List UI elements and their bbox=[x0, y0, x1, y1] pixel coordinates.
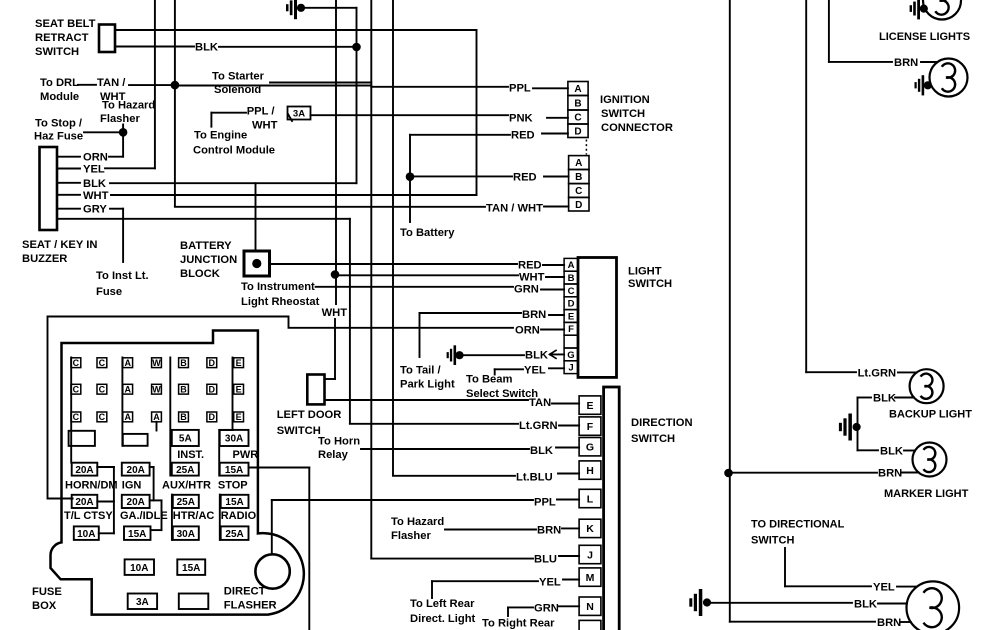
svg-text:WHT: WHT bbox=[519, 272, 545, 284]
svg-text:C: C bbox=[73, 358, 80, 368]
wire GRY buzzer bbox=[57, 208, 80, 210]
svg-text:C: C bbox=[99, 384, 106, 394]
wire BLK backup lamp to ground bbox=[858, 397, 872, 399]
wire TAN to direction switch E bbox=[325, 399, 529, 401]
wire WHT to light switch B bbox=[335, 274, 518, 276]
light switch pin A bbox=[564, 258, 578, 271]
fuse position letter E r389 c7 bbox=[234, 384, 244, 394]
fuse 25A AUX/HTR bbox=[172, 463, 199, 476]
fuse row3 A stub bbox=[156, 422, 158, 431]
wire BLK drop to battery junction block bbox=[255, 183, 257, 251]
svg-text:BLK: BLK bbox=[530, 445, 553, 457]
fuse position letter B r363 c5 bbox=[179, 358, 189, 368]
svg-text:HORN/DM: HORN/DM bbox=[65, 480, 118, 492]
svg-text:D: D bbox=[209, 384, 216, 394]
svg-text:L: L bbox=[587, 493, 594, 505]
direction switch pin L bbox=[579, 489, 601, 507]
ignition switch connector 2 pin A bbox=[569, 156, 589, 170]
wire ORN to light switch F (fuse box loop) bbox=[48, 317, 514, 499]
svg-text:Haz Fuse: Haz Fuse bbox=[34, 131, 83, 143]
svg-text:Solenoid: Solenoid bbox=[214, 84, 261, 96]
svg-text:F: F bbox=[568, 324, 574, 335]
svg-text:AUX/HTR: AUX/HTR bbox=[162, 480, 211, 492]
svg-text:WHT: WHT bbox=[83, 190, 109, 202]
wire TAN/WHT to ignition connector D bbox=[175, 206, 485, 208]
fuse box letter bus A column bbox=[121, 358, 123, 446]
wire engine control module bracket bbox=[210, 113, 212, 127]
svg-text:A: A bbox=[574, 84, 581, 95]
fuse position letter C r417 c1 bbox=[71, 412, 81, 422]
svg-text:3A: 3A bbox=[293, 108, 305, 119]
light switch pin C bbox=[564, 284, 578, 297]
ignition switch connector 2 pin D bbox=[569, 197, 589, 211]
svg-text:YEL: YEL bbox=[873, 582, 895, 594]
wire BRN to marker lamp bbox=[729, 472, 878, 474]
svg-text:CONNECTOR: CONNECTOR bbox=[601, 122, 673, 134]
svg-text:LICENSE LIGHTS: LICENSE LIGHTS bbox=[879, 31, 970, 43]
svg-text:ORN: ORN bbox=[515, 325, 540, 337]
svg-text:A: A bbox=[124, 358, 131, 368]
wire PPL to ignition connector A bbox=[533, 87, 568, 89]
wire 3A fuse to PNK bbox=[311, 114, 509, 116]
svg-text:LIGHT: LIGHT bbox=[628, 265, 662, 277]
fuse 10A bottom bbox=[125, 559, 154, 575]
direction switch pin K bbox=[579, 519, 601, 537]
fuse 15A RADIO bbox=[221, 495, 249, 508]
fuse position letter A r389 c3 bbox=[123, 384, 133, 394]
fuse box letter bus C column bbox=[70, 358, 72, 463]
svg-text:E: E bbox=[236, 384, 242, 394]
svg-text:10A: 10A bbox=[77, 529, 95, 540]
fuse 15A STOP bbox=[220, 463, 249, 476]
wire riser x336 upper bbox=[335, 0, 337, 304]
svg-text:WHT: WHT bbox=[252, 120, 278, 132]
ignition switch connector 1 pin A bbox=[568, 82, 588, 96]
wire WHT label to 3A fuse bbox=[288, 114, 292, 121]
wire Lt.GRN riser corner to direction switch F bbox=[350, 423, 518, 425]
svg-text:TAN /: TAN / bbox=[97, 77, 125, 89]
light switch pin E bbox=[564, 310, 578, 323]
fuse position letter D r389 c6 bbox=[207, 384, 217, 394]
svg-text:5A: 5A bbox=[179, 434, 192, 445]
svg-text:Fuse: Fuse bbox=[96, 286, 122, 298]
fuse blank bottom bbox=[179, 594, 209, 610]
svg-text:C: C bbox=[99, 358, 106, 368]
fuse 25A bbox=[221, 526, 249, 540]
svg-text:N: N bbox=[586, 601, 594, 613]
svg-text:20A: 20A bbox=[127, 465, 145, 476]
direction switch pin blank bbox=[579, 620, 601, 630]
svg-text:BLOCK: BLOCK bbox=[180, 268, 220, 280]
wire TAN/WHT to junction bbox=[129, 84, 175, 86]
fuse box outline bbox=[50, 331, 303, 615]
svg-text:BLK: BLK bbox=[83, 178, 106, 190]
rear directional lamp bbox=[907, 581, 960, 630]
svg-text:To Tail /: To Tail / bbox=[400, 365, 441, 377]
wire riser x370 top bbox=[370, 0, 372, 559]
battery junction block bbox=[244, 251, 270, 276]
wire riser x476 (WHT loop) bbox=[476, 30, 478, 195]
fuse blank 1 bbox=[69, 431, 95, 446]
direction switch pin J bbox=[579, 545, 601, 563]
fuse position letter C r417 c2 bbox=[97, 412, 107, 422]
svg-text:A: A bbox=[124, 412, 131, 422]
svg-text:SWITCH: SWITCH bbox=[277, 425, 321, 437]
svg-text:B: B bbox=[568, 273, 575, 284]
svg-text:J: J bbox=[587, 549, 593, 561]
svg-text:MARKER LIGHT: MARKER LIGHT bbox=[884, 488, 969, 500]
fuse 10A bbox=[74, 526, 99, 540]
ignition switch connector 1 pin D bbox=[568, 124, 588, 138]
wire IGN chain bbox=[150, 466, 154, 468]
fuse position letter B r417 c5 bbox=[179, 412, 189, 422]
svg-text:E: E bbox=[568, 311, 574, 322]
svg-text:3A: 3A bbox=[136, 597, 149, 608]
light switch pin J bbox=[564, 361, 578, 374]
wire BLU to direction switch J bbox=[371, 558, 533, 560]
svg-text:PWR: PWR bbox=[233, 449, 259, 461]
fuse 20A T/L CTSY bbox=[72, 495, 98, 508]
fuse position letter D r417 c6 bbox=[207, 412, 217, 422]
svg-text:B: B bbox=[180, 412, 187, 422]
junction RED node bbox=[406, 172, 415, 181]
svg-text:20A: 20A bbox=[75, 465, 93, 476]
left door switch bbox=[307, 375, 324, 405]
wire trunk riser x730 bbox=[729, 0, 731, 622]
fuse position letter B r389 c5 bbox=[179, 384, 189, 394]
svg-text:H: H bbox=[586, 465, 594, 477]
wire stub up to Flasher label bbox=[122, 125, 124, 133]
light switch pin D bbox=[564, 297, 578, 310]
svg-text:Direct. Light: Direct. Light bbox=[410, 613, 476, 625]
svg-text:To Left Rear: To Left Rear bbox=[410, 598, 475, 610]
wire BRN to direction switch K bbox=[445, 529, 536, 531]
junction BRN marker node bbox=[724, 469, 733, 478]
wire RADIO column bbox=[219, 495, 221, 540]
wire BRN to light switch E bbox=[419, 313, 421, 357]
wire Lt.GRN to backup lamp bbox=[806, 371, 856, 373]
svg-text:15A: 15A bbox=[182, 563, 200, 574]
direct flasher circle bbox=[255, 554, 289, 588]
svg-text:To Horn: To Horn bbox=[318, 436, 360, 448]
ignition switch connector 1 pin C bbox=[568, 110, 588, 124]
wire Haz Fuse to junction bbox=[84, 131, 123, 133]
wire BLK to marker lamp bbox=[858, 449, 879, 451]
wire TAN/WHT junction to PPL label bbox=[175, 85, 371, 87]
wire riser x336 lower to left door switch bbox=[334, 319, 336, 379]
svg-text:RED: RED bbox=[513, 172, 537, 184]
wire ORN buzzer bbox=[57, 156, 80, 158]
svg-text:IGN: IGN bbox=[122, 480, 142, 492]
wire BLK to rear lamp bbox=[707, 602, 852, 604]
fuse 20A HORN/DM bbox=[72, 463, 98, 476]
wire BLK to light switch G bbox=[460, 354, 524, 356]
direction switch pin E bbox=[579, 396, 601, 414]
svg-text:C: C bbox=[574, 113, 581, 124]
svg-text:BLK: BLK bbox=[195, 42, 218, 54]
svg-text:15A: 15A bbox=[128, 529, 146, 540]
svg-text:A: A bbox=[568, 260, 575, 271]
ground top center bbox=[286, 0, 305, 19]
light switch pin B bbox=[564, 271, 578, 284]
backup lamp bbox=[910, 369, 944, 403]
svg-text:BLK: BLK bbox=[880, 446, 903, 458]
svg-text:B: B bbox=[180, 358, 187, 368]
svg-text:FUSE: FUSE bbox=[32, 586, 62, 598]
svg-text:YEL: YEL bbox=[524, 364, 546, 376]
fuse position letter A r363 c3 bbox=[123, 358, 133, 368]
svg-text:PPL /: PPL / bbox=[247, 106, 275, 118]
svg-text:T/L CTSY: T/L CTSY bbox=[64, 510, 113, 522]
svg-text:BLK: BLK bbox=[525, 350, 548, 362]
direction switch pin F bbox=[579, 417, 601, 435]
fuse position letter C r389 c2 bbox=[97, 384, 107, 394]
svg-text:To Hazard: To Hazard bbox=[102, 100, 155, 112]
fuse 15A bottom bbox=[177, 559, 205, 575]
wire TAN/WHT riser x175 bbox=[174, 0, 176, 207]
svg-text:C: C bbox=[73, 412, 80, 422]
svg-text:To Engine: To Engine bbox=[194, 129, 247, 141]
svg-text:D: D bbox=[574, 126, 581, 137]
svg-text:SEAT BELT: SEAT BELT bbox=[35, 18, 96, 30]
direction switch pin H bbox=[579, 461, 601, 479]
svg-text:W: W bbox=[152, 384, 161, 394]
svg-text:SWITCH: SWITCH bbox=[35, 46, 79, 58]
svg-text:PPL: PPL bbox=[509, 83, 531, 95]
ignition switch connector 2 pin B bbox=[569, 170, 589, 184]
svg-text:LEFT DOOR: LEFT DOOR bbox=[277, 409, 342, 421]
svg-text:20A: 20A bbox=[127, 497, 145, 508]
svg-text:15A: 15A bbox=[225, 497, 243, 508]
svg-text:Lt.GRN: Lt.GRN bbox=[519, 420, 558, 432]
svg-text:BLK: BLK bbox=[854, 599, 877, 611]
marker lamp bbox=[913, 443, 947, 477]
fuse 3A bbox=[288, 107, 311, 120]
svg-text:25A: 25A bbox=[177, 497, 195, 508]
svg-text:A: A bbox=[124, 384, 131, 394]
svg-text:C: C bbox=[575, 186, 582, 197]
fuse box letter bus E column bbox=[232, 358, 234, 431]
wire battery junction block to RED light switch A bbox=[270, 263, 518, 265]
wire BLK seat belt switch bbox=[115, 46, 194, 48]
svg-text:PNK: PNK bbox=[509, 113, 533, 125]
ground backup/marker bbox=[839, 414, 861, 441]
svg-text:RED: RED bbox=[511, 130, 535, 142]
wire WHT buzzer bbox=[57, 194, 80, 196]
svg-text:20A: 20A bbox=[75, 497, 93, 508]
svg-text:GRN: GRN bbox=[514, 284, 539, 296]
svg-text:Relay: Relay bbox=[318, 449, 349, 461]
svg-text:RETRACT: RETRACT bbox=[35, 32, 89, 44]
svg-text:D: D bbox=[209, 358, 216, 368]
fuse position letter E r417 c7 bbox=[234, 412, 244, 422]
svg-text:E: E bbox=[236, 358, 242, 368]
svg-text:IGNITION: IGNITION bbox=[600, 94, 650, 106]
svg-text:RADIO: RADIO bbox=[221, 510, 257, 522]
ground on BLK light switch wire bbox=[447, 345, 464, 365]
fuse position letter C r363 c2 bbox=[97, 358, 107, 368]
wire flasher drop and PPL feed bbox=[271, 500, 273, 554]
ignition switch connector 1 pin B bbox=[568, 96, 588, 111]
wire GRN to direction switch N bbox=[507, 607, 509, 616]
fuse position letter E r363 c7 bbox=[234, 358, 244, 368]
svg-text:DIRECT: DIRECT bbox=[224, 585, 266, 597]
fuse 3A bottom bbox=[128, 594, 157, 610]
svg-text:To Instrument: To Instrument bbox=[241, 281, 315, 293]
svg-text:W: W bbox=[152, 358, 161, 368]
fuse 5A INST bbox=[172, 430, 199, 446]
svg-text:A: A bbox=[153, 412, 160, 422]
wire dash after To DRL bbox=[78, 84, 96, 86]
svg-text:BRN: BRN bbox=[894, 57, 918, 69]
svg-text:BUZZER: BUZZER bbox=[22, 253, 67, 265]
svg-text:B: B bbox=[575, 172, 582, 183]
fuse position letter W r363 c4 bbox=[152, 358, 162, 368]
junction BLK / ground riser bbox=[352, 43, 361, 52]
svg-text:B: B bbox=[574, 98, 581, 109]
svg-text:ORN: ORN bbox=[83, 152, 108, 164]
junction haz fuse node bbox=[119, 128, 128, 137]
svg-text:BLK: BLK bbox=[873, 393, 896, 405]
wire GRY drop to Inst Lt fuse bbox=[122, 209, 124, 262]
svg-text:GRN: GRN bbox=[534, 603, 559, 615]
wire riser x155 to YEL bbox=[154, 0, 156, 168]
light switch pin G bbox=[564, 348, 578, 361]
svg-text:K: K bbox=[586, 523, 594, 535]
direction switch pin M bbox=[579, 568, 601, 586]
wire HTR/AC column bbox=[171, 495, 173, 540]
svg-text:C: C bbox=[73, 384, 80, 394]
svg-text:Flasher: Flasher bbox=[391, 530, 431, 542]
fuse position letter C r363 c1 bbox=[71, 358, 81, 368]
wire junction down to ORN bbox=[122, 132, 124, 156]
svg-text:10A: 10A bbox=[130, 563, 148, 574]
svg-text:BATTERY: BATTERY bbox=[180, 240, 232, 252]
wire BRN to license lamp 2 bbox=[829, 61, 892, 63]
svg-text:E: E bbox=[236, 412, 242, 422]
wire GRN to light switch C bbox=[316, 286, 513, 288]
wire riser x350 bbox=[349, 219, 351, 424]
wire riser x393 bbox=[392, 0, 394, 476]
svg-text:YEL: YEL bbox=[539, 576, 561, 588]
wire BLK buzzer bbox=[57, 182, 80, 184]
svg-text:SWITCH: SWITCH bbox=[751, 534, 794, 546]
svg-text:Select Switch: Select Switch bbox=[466, 388, 538, 400]
svg-text:D: D bbox=[575, 200, 582, 211]
svg-text:C: C bbox=[99, 412, 106, 422]
junction TAN/WHT node bbox=[171, 81, 180, 90]
fuse 30A PWR bbox=[220, 430, 249, 446]
svg-text:To Hazard: To Hazard bbox=[391, 516, 444, 528]
svg-text:E: E bbox=[586, 400, 593, 412]
svg-text:To Battery: To Battery bbox=[400, 227, 455, 239]
fuse 15A bbox=[124, 526, 151, 540]
wire YEL to light switch J bbox=[494, 369, 496, 374]
svg-text:To Right Rear: To Right Rear bbox=[482, 618, 555, 630]
wire license riser x829 bbox=[828, 0, 830, 62]
svg-text:B: B bbox=[180, 384, 187, 394]
svg-text:To Beam: To Beam bbox=[466, 373, 512, 385]
svg-text:15A: 15A bbox=[225, 465, 243, 476]
svg-text:SWITCH: SWITCH bbox=[601, 108, 645, 120]
wire YEL buzzer bbox=[57, 168, 80, 170]
svg-text:BACKUP LIGHT: BACKUP LIGHT bbox=[889, 409, 972, 421]
svg-text:TAN / WHT: TAN / WHT bbox=[486, 203, 543, 215]
svg-text:30A: 30A bbox=[225, 434, 243, 445]
seat belt retract switch bbox=[99, 25, 115, 53]
wire stub To Battery bbox=[409, 177, 411, 222]
svg-text:Flasher: Flasher bbox=[100, 113, 140, 125]
svg-text:GA./IDLE: GA./IDLE bbox=[120, 510, 168, 522]
fuse box letter bus B column bbox=[169, 358, 171, 476]
battery junction block terminal dot bbox=[252, 259, 261, 268]
wire STOP 15A feed bbox=[249, 467, 310, 469]
wire BRN to rear lamp bbox=[730, 621, 875, 623]
svg-text:Lt.BLU: Lt.BLU bbox=[516, 471, 553, 483]
svg-text:PPL: PPL bbox=[534, 497, 556, 509]
direction switch body bbox=[604, 387, 620, 630]
ground rear lamp BLK bbox=[689, 589, 711, 616]
svg-text:30A: 30A bbox=[177, 529, 195, 540]
wire YEL to direction switch M bbox=[431, 581, 433, 598]
svg-text:INST.: INST. bbox=[177, 449, 204, 461]
svg-text:G: G bbox=[567, 350, 574, 361]
wire YEL to rear lamp bbox=[784, 548, 786, 586]
light switch body bbox=[578, 258, 617, 378]
seat / key-in buzzer bbox=[40, 147, 58, 230]
svg-text:To Starter: To Starter bbox=[212, 71, 265, 83]
dotted link between connectors bbox=[585, 140, 587, 155]
direction switch pin N bbox=[579, 597, 601, 615]
svg-text:BRN: BRN bbox=[522, 309, 546, 321]
wire buzzer bottom feed bbox=[57, 218, 350, 220]
wire BLK to direction switch G bbox=[361, 448, 529, 450]
ignition switch connector 2 pin C bbox=[569, 184, 589, 198]
svg-text:To DRL: To DRL bbox=[40, 77, 79, 89]
svg-text:BLU: BLU bbox=[534, 554, 557, 566]
svg-text:To Stop /: To Stop / bbox=[35, 118, 82, 130]
svg-text:HTR/AC: HTR/AC bbox=[173, 510, 215, 522]
svg-text:To Inst Lt.: To Inst Lt. bbox=[96, 270, 149, 282]
wire Lt.BLU to direction switch H bbox=[393, 475, 515, 477]
svg-text:A: A bbox=[575, 158, 582, 169]
wire RED to ignition connector D bbox=[409, 135, 411, 177]
wire riser x356 bbox=[356, 8, 358, 183]
fuse blank 2 bbox=[123, 434, 148, 446]
svg-text:Control Module: Control Module bbox=[193, 145, 275, 157]
wire trunk riser x806 bbox=[805, 0, 807, 372]
svg-text:D: D bbox=[568, 299, 575, 310]
ground license lamp 1 bbox=[910, 0, 928, 19]
svg-text:Lt.GRN: Lt.GRN bbox=[858, 367, 897, 379]
fuse 20A IGN bbox=[122, 463, 150, 476]
fuse 30A bbox=[173, 526, 199, 540]
svg-text:FLASHER: FLASHER bbox=[224, 600, 277, 612]
wire HORN/DM chain bbox=[97, 466, 114, 468]
junction WHT node on riser x336 bbox=[331, 270, 340, 279]
wire To Starter Solenoid bbox=[270, 82, 371, 84]
svg-text:SWITCH: SWITCH bbox=[631, 433, 675, 445]
svg-text:Module: Module bbox=[40, 91, 79, 103]
svg-text:F: F bbox=[587, 421, 594, 433]
svg-text:JUNCTION: JUNCTION bbox=[180, 254, 237, 266]
fuse position letter C r389 c1 bbox=[71, 384, 81, 394]
wire seat belt switch top to node x476 bbox=[115, 29, 477, 31]
svg-text:YEL: YEL bbox=[83, 164, 105, 176]
fuse position letter A r417 c4 bbox=[152, 412, 162, 422]
svg-text:RED: RED bbox=[518, 260, 542, 272]
svg-text:BRN: BRN bbox=[878, 468, 902, 480]
